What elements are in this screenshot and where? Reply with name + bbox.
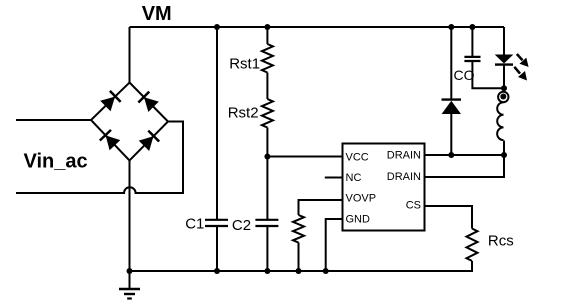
ground [119,271,140,299]
bridge diode D2 (right to top) [138,92,159,113]
svg-text:VCC: VCC [346,152,369,164]
svg-text:DRAIN: DRAIN [387,171,421,183]
wire bottom ground rail [130,261,473,271]
junction dots top rail [214,24,220,30]
wire CS to Rcs [425,206,473,229]
wire AC input bottom with hop [16,122,183,194]
svg-text:VM: VM [142,3,172,25]
junction dot LED/CO/coil node [501,85,507,91]
svg-text:DRAIN: DRAIN [387,150,421,162]
wire C1 branch [216,27,218,220]
bridge diode D3 (bottom to left) [100,130,121,151]
wire coil to drain junction [503,88,505,92]
svg-text:Rcs: Rcs [488,233,514,250]
wire DRAIN1 [425,154,505,156]
resistor VOVP (unlabeled) [293,215,304,243]
svg-text:GND: GND [346,213,371,225]
capacitor CO [464,57,480,61]
wire bridge top to rail [129,27,131,83]
junction dot drain node right [501,152,507,158]
resistor Rst1 [262,44,273,73]
capacitor C2 [255,220,278,226]
LED emission arrow 2 [514,67,527,81]
junction dot VCC node [264,154,270,160]
svg-text:C1: C1 [185,216,204,233]
LED (pointing down) [495,55,514,65]
svg-text:Rst1: Rst1 [229,55,260,72]
svg-text:CO: CO [454,67,475,83]
LED emission arrow 1 [517,54,529,67]
wire freewheel diode branch [450,27,452,100]
wire Rst/C2 branch upper [266,27,268,44]
bridge diode D4 (bottom to right) [138,131,159,152]
svg-text:VOVP: VOVP [346,193,377,205]
capacitor C1 [205,220,228,226]
wire LED branch [503,27,505,55]
resistor Rcs [467,229,478,261]
freewheel diode (pointing up) [442,100,462,114]
wire GND pin [326,219,343,271]
svg-text:Rst2: Rst2 [228,104,259,121]
junction dot drain node left [448,152,454,158]
resistor Rst2 [262,99,273,128]
junction dots bottom rail [127,268,133,274]
wire VCC [267,156,342,158]
op-amp/IC box U1 [343,144,425,231]
wire AC input left [16,119,91,121]
bridge rectifier diamond wires [91,83,168,161]
inductor coil with phase dot [497,92,508,140]
wire NC stub [325,177,343,179]
svg-text:NC: NC [346,172,362,184]
wire VOVP resistor to ground rail [298,243,300,272]
svg-text:Vin_ac: Vin_ac [24,151,88,173]
wire DRAIN2 [425,155,505,177]
wire VOVP to resistor [299,200,343,215]
bridge diode D1 (left to top) [100,91,121,112]
wire top rail VM [130,26,505,28]
wire bridge bottom to ground rail [129,161,131,272]
wire CO branch [471,27,473,57]
svg-text:CS: CS [406,199,421,211]
svg-text:C2: C2 [232,217,251,234]
